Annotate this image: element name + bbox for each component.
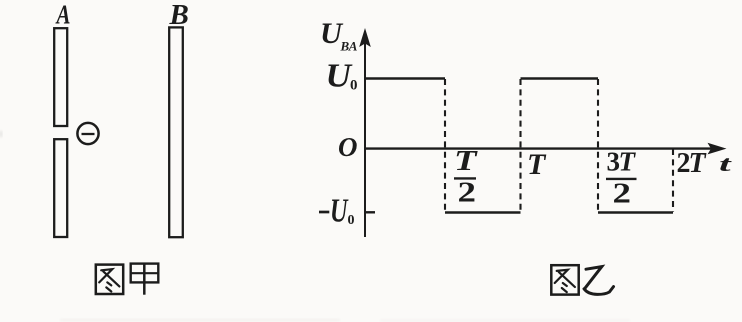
negative charge circle xyxy=(77,123,98,144)
wave high segment 1 xyxy=(365,77,445,80)
svg-text:U: U xyxy=(330,193,349,230)
svg-text:U: U xyxy=(326,58,353,95)
dashed transition at T/2 xyxy=(444,79,446,212)
wave low segment 2 xyxy=(598,211,673,214)
caption 图甲 char 甲 xyxy=(131,263,159,294)
caption 图甲 char 图 xyxy=(96,265,123,294)
minus sign in charge xyxy=(82,133,95,135)
x axis xyxy=(364,147,712,149)
y axis xyxy=(364,42,366,237)
scan artifact left dot xyxy=(0,131,2,137)
caption 图乙 char 图 xyxy=(551,265,578,294)
plate A lower xyxy=(54,139,67,237)
plate A upper xyxy=(54,28,67,126)
svg-text:T: T xyxy=(454,146,479,177)
svg-text:BA: BA xyxy=(340,39,358,54)
y axis arrowhead xyxy=(359,28,371,47)
svg-text:T: T xyxy=(689,148,708,179)
svg-text:t: t xyxy=(719,152,733,176)
svg-text:A: A xyxy=(55,0,71,30)
svg-text:T: T xyxy=(619,147,637,177)
scan artifact bottom smudge xyxy=(60,319,630,321)
svg-text:2: 2 xyxy=(613,178,632,210)
svg-text:T: T xyxy=(527,148,547,181)
caption 图乙 char 乙 xyxy=(584,267,614,295)
tick at -U0 xyxy=(365,211,376,213)
label -U0 xyxy=(319,211,329,214)
dashed transition at 2T xyxy=(672,149,674,212)
svg-text:0: 0 xyxy=(350,78,358,94)
dashed transition at T xyxy=(519,79,521,212)
dashed transition at 3T/2 xyxy=(597,79,599,212)
x axis arrowhead xyxy=(708,143,727,155)
plate B xyxy=(169,27,183,237)
svg-text:2: 2 xyxy=(458,177,477,209)
wave high segment 2 xyxy=(521,77,599,80)
svg-text:O: O xyxy=(338,132,358,162)
wave low segment 1 xyxy=(445,211,521,214)
svg-text:0: 0 xyxy=(348,213,355,228)
